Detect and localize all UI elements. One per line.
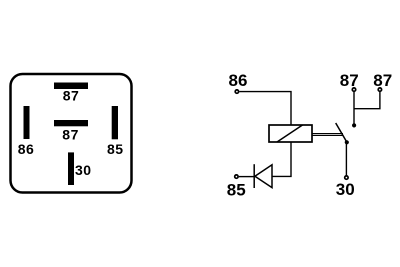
wire 86 to coil top: [239, 92, 291, 125]
svg-text:85: 85: [227, 180, 246, 199]
coil diagonal: [277, 125, 303, 142]
svg-text:86: 86: [229, 71, 248, 90]
diode V1 cathode bar: [253, 164, 255, 188]
terminal 86: [235, 90, 238, 93]
wire coil bottom to diode node: [273, 142, 292, 176]
terminal 87 left: [352, 88, 355, 91]
wire contact to 87 terminal: [353, 92, 355, 126]
terminal 30: [345, 176, 348, 179]
diode V1 triangle: [255, 165, 272, 188]
mechanical link (double line): [312, 134, 343, 136]
svg-text:30: 30: [336, 180, 355, 199]
pin 87 middle blade: [54, 120, 88, 126]
pin 86 blade: [24, 106, 30, 139]
wire pivot to 30 terminal: [345, 144, 347, 176]
wire 87 right down and across: [354, 92, 380, 109]
relay base outline: [11, 74, 132, 193]
svg-text:87: 87: [62, 127, 79, 143]
coil K1 body: [269, 125, 312, 142]
switch armature: [336, 123, 347, 142]
svg-text:87: 87: [373, 71, 392, 90]
pin 87 top blade: [54, 83, 88, 90]
pin 30 blade: [68, 152, 74, 185]
terminal 85: [235, 175, 238, 178]
terminal 87 right: [378, 88, 381, 91]
armature pivot junction: [345, 140, 349, 144]
fixed contact junction: [352, 123, 356, 127]
svg-text:86: 86: [18, 141, 35, 157]
svg-text:30: 30: [75, 162, 92, 178]
pin 85 blade: [112, 106, 118, 139]
svg-text:87: 87: [63, 88, 80, 104]
svg-text:85: 85: [107, 141, 124, 157]
wire 85 to diode: [239, 176, 254, 178]
svg-text:87: 87: [340, 71, 359, 90]
